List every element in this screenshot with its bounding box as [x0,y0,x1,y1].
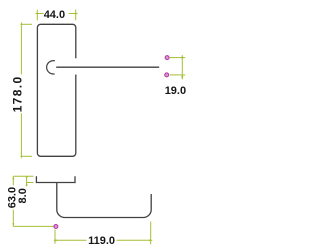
svg-text:8.0: 8.0 [17,188,29,203]
svg-text:44.0: 44.0 [44,9,65,21]
svg-text:119.0: 119.0 [88,235,115,247]
svg-text:19.0: 19.0 [165,85,186,97]
svg-text:178.0: 178.0 [11,75,25,112]
